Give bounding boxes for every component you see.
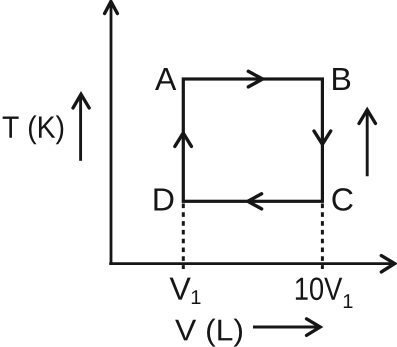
T axis arrowhead <box>105 2 118 14</box>
axis label V (L) <box>175 319 242 347</box>
arrow D to A (left edge, upward) <box>175 133 192 146</box>
arrow A to B (top edge, rightward) <box>248 71 262 87</box>
axis label T (K) <box>3 115 64 144</box>
node label D <box>154 188 173 210</box>
T axis (vertical axis line) <box>110 5 113 265</box>
arrow B to C (right edge, downward) <box>314 131 331 144</box>
cycle rectangle ABCD <box>183 79 322 201</box>
up arrow beside T (K) <box>73 94 89 161</box>
right arrow beside V (L) <box>253 319 320 336</box>
tick label 10V1 <box>296 277 353 308</box>
node label C <box>332 188 352 211</box>
node label A <box>155 68 176 90</box>
up arrow at right of diagram <box>359 110 376 177</box>
V axis arrowhead <box>381 256 394 272</box>
arrow C to D (bottom edge, leftward) <box>248 194 262 209</box>
dashed line from D to V1 on axis <box>182 204 185 270</box>
node label B <box>333 68 350 90</box>
tick label V1 <box>170 278 201 304</box>
V axis (horizontal axis line) <box>109 262 392 265</box>
dashed line from C to 10V1 on axis <box>321 204 324 270</box>
